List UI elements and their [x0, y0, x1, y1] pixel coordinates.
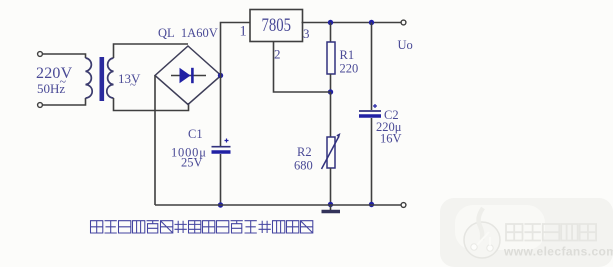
- bottom rail: [155, 204, 401, 206]
- terminal IN bottom: [38, 103, 43, 108]
- wire C1 bottom: [220, 154, 222, 205]
- watermark gray patch: [440, 198, 613, 267]
- wire secondary top: [114, 44, 189, 58]
- node C2 bottom: [369, 202, 374, 207]
- svg-text:50Hz: 50Hz: [37, 81, 65, 96]
- caption 固定式三端稳压器输出电压可调电路 (pseudo glyphs): [91, 221, 313, 233]
- svg-text:C1: C1: [188, 127, 203, 141]
- bridge rectifier QL diamond: [155, 46, 221, 105]
- transformer core: [100, 57, 105, 101]
- svg-text:1: 1: [240, 24, 247, 40]
- transformer T1 primary winding: [86, 58, 93, 98]
- wire pin2: [274, 42, 331, 93]
- wire R1 top: [330, 23, 332, 43]
- capacitor C1 plus: [225, 139, 229, 143]
- wire C2 top: [371, 23, 373, 111]
- capacitor C2 plus: [373, 104, 377, 108]
- resistor R1: [327, 42, 335, 74]
- potentiometer R2: [327, 137, 335, 168]
- svg-text:~: ~: [130, 79, 136, 91]
- bridge diode D: [180, 68, 191, 83]
- watermark logo: [464, 208, 500, 258]
- regulator U1 7805 box: [250, 10, 303, 42]
- node bridge plus: [218, 73, 223, 78]
- ground: [330, 205, 332, 211]
- bridge diode lead: [171, 75, 206, 77]
- wire bridge minus down: [154, 76, 156, 206]
- svg-text:220: 220: [340, 62, 359, 76]
- wire primary bottom: [43, 98, 86, 105]
- watermark text 电子发烧友 (pseudo glyphs): [506, 224, 596, 241]
- svg-text:2: 2: [274, 47, 281, 62]
- wire R1 bottom: [330, 74, 332, 92]
- transformer T1 secondary winding: [107, 58, 114, 98]
- svg-text:680: 680: [294, 159, 313, 173]
- svg-text:7805: 7805: [262, 15, 292, 36]
- wire R2 top: [330, 92, 332, 137]
- svg-text:R1: R1: [340, 48, 355, 62]
- svg-text:QL 1A60V: QL 1A60V: [158, 26, 218, 40]
- capacitor C2: [359, 110, 381, 112]
- node C2 top: [369, 20, 374, 25]
- wire bridge plus down to C1: [220, 76, 222, 147]
- node ground: [328, 202, 333, 207]
- terminal OUT top: [401, 20, 406, 25]
- terminal IN top: [38, 52, 43, 57]
- wire pin3 to top rail: [302, 22, 401, 24]
- node C1 bottom: [218, 202, 223, 207]
- svg-text:www.elecfans.com: www.elecfans.com: [503, 245, 613, 259]
- wire primary top: [43, 54, 86, 58]
- wire R2 bottom: [330, 168, 332, 205]
- node R1 top: [328, 20, 333, 25]
- wire bridge plus to 7805 pin1: [221, 23, 250, 76]
- wire secondary bottom: [114, 98, 189, 111]
- svg-text:16V: 16V: [380, 132, 402, 146]
- svg-text:Uo: Uo: [398, 38, 413, 52]
- svg-text:220V: 220V: [36, 65, 73, 82]
- capacitor C1: [212, 146, 231, 148]
- wire C2 bottom: [371, 118, 373, 205]
- svg-text:25V: 25V: [181, 156, 203, 170]
- svg-text:3: 3: [303, 26, 310, 41]
- node pin2/R1: [328, 89, 333, 94]
- terminal OUT bottom: [401, 203, 406, 208]
- svg-text:R2: R2: [297, 145, 312, 159]
